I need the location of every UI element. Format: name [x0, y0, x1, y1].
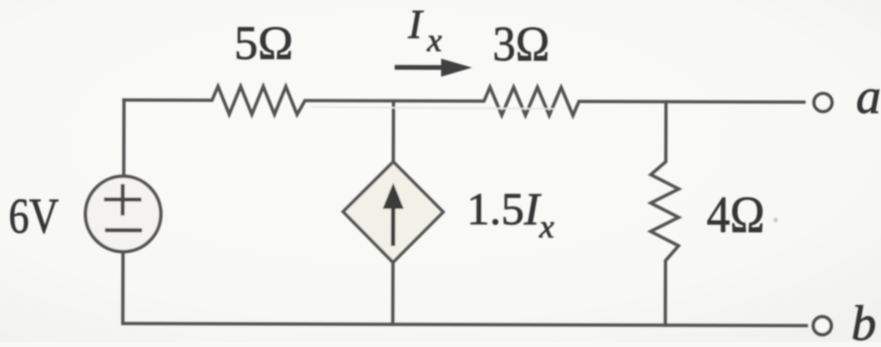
svg-text:4Ω: 4Ω — [707, 187, 765, 244]
svg-text:6V: 6V — [9, 187, 59, 243]
svg-text:x: x — [426, 23, 442, 59]
svg-text:a: a — [856, 68, 881, 124]
svg-text:I: I — [407, 1, 424, 47]
svg-text:3Ω: 3Ω — [493, 15, 550, 71]
svg-text:b: b — [851, 295, 876, 342]
svg-text:5Ω: 5Ω — [234, 17, 293, 70]
